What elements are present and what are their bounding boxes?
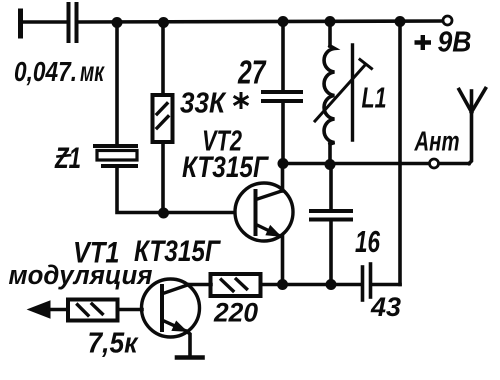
node VT2 emitter junction: [277, 279, 288, 290]
svg-text:33К: 33К: [180, 88, 227, 120]
capacitor 43: [363, 264, 371, 300]
capacitor 16: [311, 211, 351, 220]
wire VT1 emitter to ground: [187, 332, 190, 357]
wire C16 bottom lead: [329, 221, 333, 285]
input arrow modulation: [28, 301, 68, 318]
node VT2 collector junction: [278, 158, 289, 169]
transistor VT1: [142, 279, 200, 337]
inductor L1 coil: [324, 46, 334, 144]
wire emitter rail y284: [261, 283, 361, 287]
wire C27 top lead: [281, 21, 285, 90]
wire VT2 collector lead: [281, 163, 285, 191]
wire Z1 bottom to VT2 base: [117, 166, 234, 213]
svg-text:27: 27: [237, 54, 266, 91]
wire C16 top lead: [329, 165, 333, 209]
inductor L1 core: [351, 45, 354, 140]
wire top +9V rail: [78, 21, 443, 22]
node L1 bottom junction: [325, 159, 336, 170]
svg-text:L1: L1: [362, 83, 387, 115]
antenna: [459, 89, 486, 164]
node C16 emitter junction: [326, 279, 337, 290]
svg-text:модуляция: модуляция: [9, 260, 153, 290]
label 7,5к: [88, 328, 139, 360]
ground: [177, 355, 203, 360]
svg-text:220: 220: [213, 298, 258, 328]
svg-text:0,047.: 0,047.: [14, 56, 77, 87]
label Z1: [54, 142, 81, 175]
svg-text:43: 43: [370, 292, 401, 322]
wire right branch from rail to C43: [398, 21, 402, 285]
wire C27 bottom lead: [281, 102, 285, 163]
wire 33K top lead: [161, 22, 165, 95]
svg-text:16: 16: [355, 224, 381, 259]
resistor 7,5к: [68, 300, 118, 321]
label 33К *: [180, 88, 247, 120]
node 33K top rail junction: [158, 17, 169, 28]
wire collector rail y163: [283, 162, 469, 166]
svg-text:9В: 9В: [438, 27, 472, 59]
node right branch rail junction: [395, 16, 406, 27]
label L1: [362, 83, 387, 115]
inductor L1 adjust arrow: [315, 60, 372, 122]
wire 7,5к to VT1 base: [118, 308, 143, 312]
transistor VT2: [235, 183, 293, 241]
crystal Z1: [95, 146, 137, 166]
resistor 33К: [153, 95, 173, 142]
wire VT1 collector to R220: [187, 283, 211, 287]
label Ант: [414, 126, 460, 157]
terminal Ант: [430, 159, 439, 168]
capacitor 27: [263, 92, 301, 101]
label КТ315Г (VT1): [134, 235, 221, 268]
wire input to C 0,047: [20, 20, 66, 24]
wire C43 to right branch: [372, 283, 400, 287]
svg-text:7,5к: 7,5к: [88, 328, 139, 360]
node C27 top rail junction: [278, 16, 289, 27]
node L1 top rail junction: [325, 16, 336, 27]
capacitor C 0,047мк: [69, 4, 77, 41]
label КТ315Г (VT2): [182, 151, 269, 184]
label модуляция: [9, 260, 153, 290]
wire Z1 top lead: [115, 22, 119, 144]
svg-text:КТ315Г: КТ315Г: [182, 151, 269, 184]
resistor 220: [211, 274, 261, 296]
label 27: [237, 54, 266, 91]
input terminal bar: [18, 11, 23, 36]
wire VT2 emitter lead: [281, 236, 285, 285]
label 16: [355, 224, 381, 259]
terminal +9В: [443, 16, 452, 25]
svg-text:мк: мк: [80, 56, 105, 87]
label VT1: [73, 237, 120, 270]
label VT2: [202, 126, 242, 158]
wire 33K bottom lead: [161, 142, 165, 213]
label + 9В: [415, 27, 472, 59]
node 33K base junction: [158, 208, 169, 219]
label 0,047 мк: [14, 56, 105, 87]
label 220: [213, 298, 258, 328]
node Z1 top rail junction: [112, 17, 123, 28]
svg-text:Z1: Z1: [54, 142, 81, 175]
svg-text:Анm: Анm: [414, 126, 460, 157]
label 43: [370, 292, 401, 322]
wire L1 top lead: [328, 21, 332, 46]
wire L1 bottom lead: [328, 142, 332, 165]
